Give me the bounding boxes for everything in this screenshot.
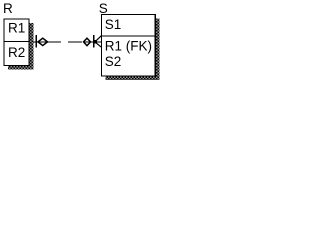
entity R shadow [8, 23, 34, 70]
wire stub from R box [33, 41, 39, 43]
diamond at S end [84, 38, 91, 45]
diamond at R end [38, 38, 48, 45]
crow's foot prong middle [95, 41, 102, 43]
svg-text:R1 (FK): R1 (FK) [105, 39, 152, 54]
crow's foot prong lower [95, 42, 102, 47]
svg-text:S: S [99, 1, 108, 16]
entity S shadow [106, 19, 160, 81]
svg-text:R: R [3, 1, 13, 16]
crow's foot prong upper [95, 36, 102, 42]
cardinality bar at R end [35, 35, 37, 47]
dot at S end [93, 40, 97, 44]
entity R box [4, 19, 29, 66]
svg-text:S2: S2 [105, 54, 122, 69]
line through diamond at S end [85, 41, 95, 43]
cardinality bar at S end [93, 35, 95, 47]
entity R divider [3, 41, 29, 43]
line through diamond at R end [39, 41, 48, 43]
entity S divider [101, 35, 155, 37]
svg-text:R1: R1 [8, 20, 25, 35]
dashed wire segment 2 [68, 41, 82, 43]
svg-text:R2: R2 [8, 45, 25, 60]
dashed wire segment 1 [48, 41, 61, 43]
svg-text:S1: S1 [105, 17, 122, 32]
entity S box [102, 15, 156, 77]
